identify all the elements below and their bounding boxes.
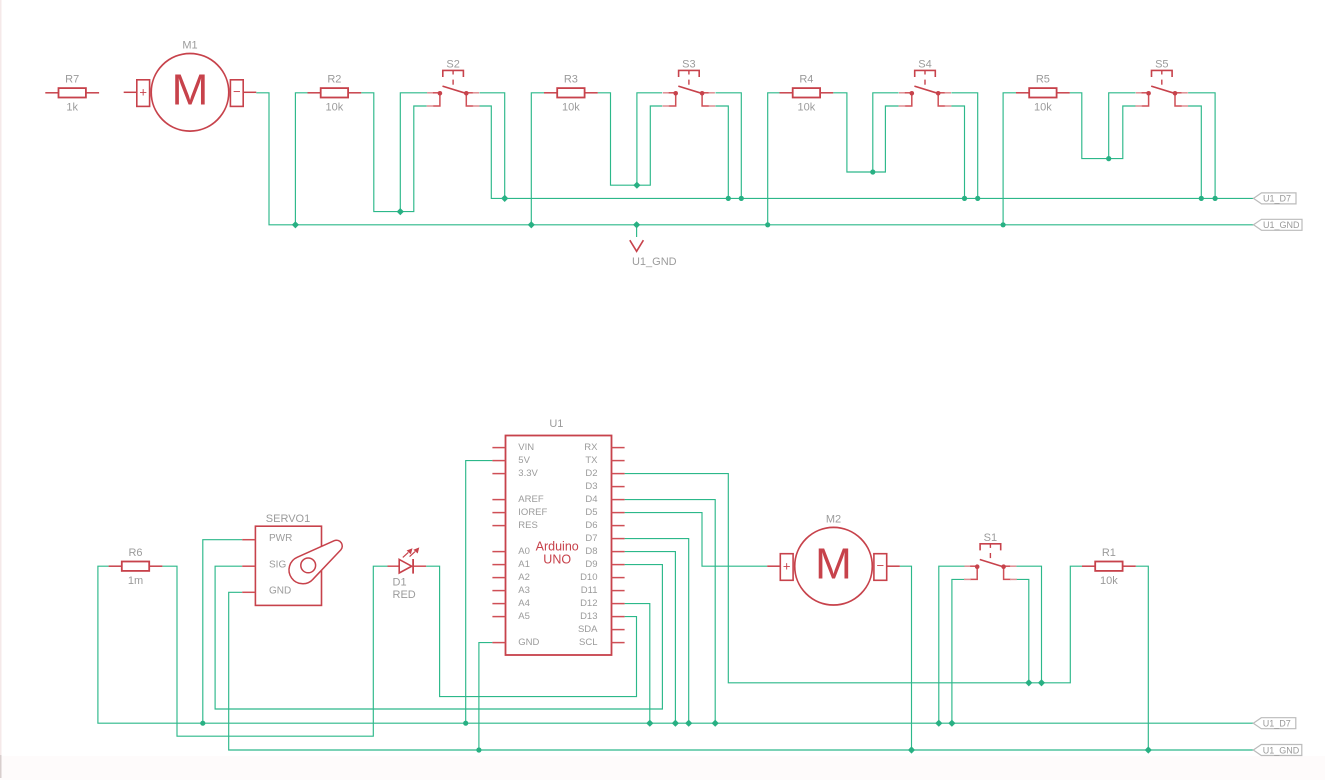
svg-text:R1: R1 — [1102, 547, 1116, 559]
svg-text:S4: S4 — [918, 59, 931, 71]
net flag U1_D7 top — [1254, 193, 1297, 204]
wire S5 top-left branch — [1109, 93, 1136, 159]
svg-text:−: − — [877, 558, 885, 573]
junction R3-GND diamond — [528, 221, 535, 228]
wire R2 right to S2 bottom-left — [361, 93, 426, 212]
net flag U1_GND top — [1254, 219, 1303, 230]
junction S3 outer-right dot — [739, 196, 744, 201]
svg-text:SCL: SCL — [579, 637, 597, 648]
svg-text:10k: 10k — [1100, 575, 1118, 587]
svg-text:A5: A5 — [518, 611, 530, 622]
junction S5 outer-right dot — [1213, 196, 1218, 201]
svg-text:A2: A2 — [518, 572, 530, 583]
resistor R2 — [308, 74, 362, 114]
wire U1 D8 down to rail — [625, 552, 676, 724]
motor M1 — [124, 39, 257, 131]
LED D1 — [388, 547, 427, 601]
wire R3 right to S3 bottom-left — [598, 93, 662, 185]
wire M1- to U1_GND rail and rail to flag — [256, 93, 1253, 225]
svg-text:A1: A1 — [518, 559, 530, 570]
svg-text:1m: 1m — [128, 575, 143, 587]
junction S5 inner-right dot — [1199, 196, 1204, 201]
wire S4 bottom-right to rail A — [951, 106, 964, 198]
wire S3 bottom-right to rail A — [716, 106, 729, 198]
junction S5-left dot — [1106, 156, 1111, 161]
svg-text:D12: D12 — [580, 598, 597, 609]
svg-text:VIN: VIN — [518, 442, 534, 453]
wire S4 top-right to rail A — [951, 93, 977, 199]
wire S1 top-right down to D2 rail — [1016, 566, 1041, 683]
wire S5 top-right to rail A — [1188, 93, 1215, 199]
junction U1-GND dot — [476, 747, 481, 752]
wire U1 GND pin to GND rail — [479, 643, 493, 750]
motor M2 — [767, 513, 900, 605]
svg-text:D13: D13 — [580, 611, 597, 622]
svg-text:10k: 10k — [562, 101, 580, 113]
wire R5 left to GND rail — [1003, 93, 1016, 225]
svg-text:AREF: AREF — [518, 494, 544, 505]
svg-text:D1: D1 — [393, 577, 407, 589]
svg-text:A3: A3 — [518, 585, 530, 596]
svg-text:D2: D2 — [585, 468, 597, 479]
wire S4 top-left branch — [873, 93, 899, 172]
svg-text:UNO: UNO — [543, 553, 571, 567]
svg-text:D6: D6 — [585, 520, 597, 531]
svg-text:RX: RX — [584, 442, 598, 453]
svg-text:R5: R5 — [1036, 74, 1050, 86]
wire R6 right to D1 anode — [162, 566, 387, 736]
net flag U1_GND bottom — [1253, 745, 1302, 756]
junction S3 inner-right dot — [726, 196, 731, 201]
resistor R1 — [1082, 547, 1136, 587]
svg-text:M: M — [172, 66, 209, 115]
wire U1 D2 to S1/R1 rail — [625, 474, 1082, 683]
junction M2-GND diamond — [908, 746, 915, 753]
svg-text:D9: D9 — [585, 559, 597, 570]
svg-text:10k: 10k — [326, 101, 344, 113]
svg-text:U1: U1 — [549, 418, 563, 430]
servo SERVO1 body — [242, 513, 321, 606]
svg-text:D7: D7 — [585, 533, 597, 544]
svg-text:RES: RES — [518, 520, 538, 531]
svg-text:R2: R2 — [327, 74, 341, 86]
svg-text:A0: A0 — [518, 546, 530, 557]
svg-text:GND: GND — [269, 586, 291, 597]
junction S1 topleft diamond — [935, 720, 942, 727]
wire U1 D5 to M2+ — [625, 513, 768, 567]
wire R1 right to GND rail — [1136, 566, 1149, 750]
svg-text:M: M — [815, 539, 852, 588]
svg-text:−: − — [233, 84, 241, 99]
svg-text:SIG: SIG — [269, 560, 286, 571]
svg-text:SERVO1: SERVO1 — [266, 513, 310, 525]
wire S3 top-left branch — [637, 93, 662, 185]
switch S1 — [964, 532, 1017, 579]
junction D7 diamond — [685, 720, 692, 727]
switch S4 — [899, 59, 952, 106]
switch S2 — [427, 59, 480, 106]
svg-text:3.3V: 3.3V — [518, 468, 538, 479]
svg-text:D3: D3 — [585, 481, 597, 492]
IC U1 Arduino UNO — [492, 418, 624, 655]
wire SERVO1 PWR down to rail — [203, 540, 242, 724]
resistor R4 — [780, 74, 834, 114]
junction D12 diamond — [646, 720, 653, 727]
junction S1 topright diamond — [1038, 679, 1045, 686]
wire S1 bottom-right down to D2 rail — [1016, 579, 1029, 682]
svg-text:U1_D7: U1_D7 — [1263, 719, 1291, 729]
wire S2 top-left branch — [400, 93, 427, 212]
svg-text:1k: 1k — [66, 101, 78, 113]
svg-text:A4: A4 — [518, 598, 530, 609]
svg-text:+: + — [783, 559, 791, 574]
svg-text:D4: D4 — [585, 494, 597, 505]
svg-text:GND: GND — [518, 637, 539, 648]
junction S4-left dot — [870, 169, 875, 174]
svg-text:M2: M2 — [826, 513, 841, 525]
wire U1 D7 down to rail — [625, 539, 689, 724]
page left-bottom notch — [0, 755, 2, 778]
svg-text:U1_D7: U1_D7 — [1263, 194, 1291, 204]
junction D8 diamond — [672, 720, 679, 727]
svg-text:PWR: PWR — [269, 533, 292, 544]
wire U1 5V down to rail — [466, 461, 493, 724]
svg-text:5V: 5V — [518, 455, 530, 466]
wire R2 left to GND rail — [295, 93, 307, 225]
svg-text:RED: RED — [393, 589, 416, 601]
svg-text:M1: M1 — [182, 39, 197, 51]
junction R4-GND dot — [765, 222, 770, 227]
junction 5V dot — [463, 721, 468, 726]
resistor R7 — [45, 74, 99, 114]
page bottom tint — [0, 756, 1325, 780]
ground symbol U1_GND arrow — [630, 225, 677, 268]
junction S4 outer-right dot — [975, 196, 980, 201]
junction GND-arrow diamond — [633, 221, 640, 228]
junction S2-left diamond — [397, 208, 404, 215]
svg-text:U1_GND: U1_GND — [1263, 745, 1300, 755]
wire D1 cathode to U1 D13 — [426, 566, 636, 696]
svg-text:S2: S2 — [446, 59, 459, 71]
servo horn — [289, 540, 342, 583]
wire U1 D12 down to rail — [625, 604, 650, 724]
wire S2 top-right to rail A — [480, 93, 505, 199]
junction R5-GND dot — [1001, 222, 1006, 227]
wire S1 bottom-left down to rail — [952, 579, 966, 723]
wire R4 right to S4 bottom-left — [833, 93, 898, 172]
wire R6 left to U1_D7 bottom rail and rail to flag — [98, 566, 1253, 723]
svg-text:U1_GND: U1_GND — [1263, 220, 1300, 230]
svg-text:D5: D5 — [585, 507, 597, 518]
svg-text:TX: TX — [585, 455, 598, 466]
svg-text:IOREF: IOREF — [518, 507, 547, 518]
wire S1 top-left down to rail — [939, 566, 966, 723]
svg-text:D11: D11 — [581, 585, 598, 596]
svg-text:U1_GND: U1_GND — [632, 256, 677, 268]
svg-text:SDA: SDA — [578, 624, 598, 635]
svg-text:R4: R4 — [799, 74, 813, 86]
junction R1-GND diamond — [1145, 746, 1152, 753]
resistor R5 — [1016, 74, 1070, 114]
wire S2 bottom-right to U1_D7 rail A and rail to flag — [480, 106, 1254, 198]
svg-text:R7: R7 — [65, 74, 79, 86]
wire S3 top-right to rail A — [716, 93, 742, 199]
junction S3-left diamond — [633, 182, 640, 189]
net flag U1_D7 bottom — [1253, 718, 1296, 729]
svg-text:+: + — [139, 85, 147, 100]
junction S1 bottomleft diamond — [948, 720, 955, 727]
wire SERVO1 SIG to U1 D9 — [215, 565, 662, 709]
svg-text:R6: R6 — [128, 547, 142, 559]
wire R3 left to GND rail — [531, 93, 544, 225]
svg-text:S3: S3 — [682, 59, 695, 71]
page left edge tint — [0, 0, 2, 780]
resistor R6 — [109, 547, 163, 587]
svg-text:D10: D10 — [580, 572, 597, 583]
junction R2-GND diamond — [292, 221, 299, 228]
junction S4 inner-right dot — [962, 196, 967, 201]
svg-text:S1: S1 — [984, 532, 997, 544]
wire R5 right to S5 bottom-left — [1070, 93, 1136, 159]
junction S1 bottomright diamond — [1025, 679, 1032, 686]
svg-text:D8: D8 — [585, 546, 597, 557]
svg-text:Arduino: Arduino — [536, 539, 579, 553]
svg-text:R3: R3 — [564, 74, 578, 86]
svg-text:10k: 10k — [798, 101, 816, 113]
wire U1 D4 down to rail — [625, 500, 716, 724]
junction D4 diamond — [712, 720, 719, 727]
wire SERVO1 GND to GND rail and rail to flag — [229, 592, 1254, 750]
wire M2- to GND rail — [900, 566, 912, 750]
resistor R3 — [544, 74, 598, 114]
junction S2-right diamond on rail A — [501, 195, 508, 202]
junction PWR dot — [200, 721, 205, 726]
switch S5 — [1135, 59, 1188, 106]
wire R4 left to GND rail — [768, 93, 780, 225]
switch S3 — [663, 59, 716, 106]
wire S5 bottom-right to rail A — [1188, 106, 1201, 198]
svg-text:10k: 10k — [1034, 101, 1052, 113]
svg-text:S5: S5 — [1155, 59, 1168, 71]
